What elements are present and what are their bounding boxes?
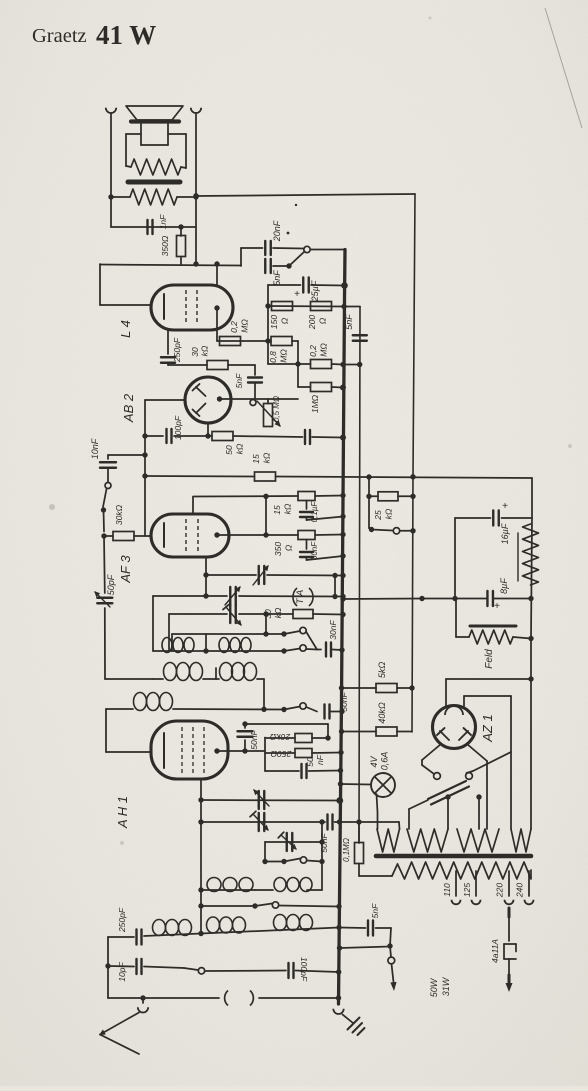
speck	[49, 17, 572, 846]
svg-text:10pF: 10pF	[117, 962, 127, 982]
node bus row906	[336, 904, 341, 909]
node	[356, 819, 361, 824]
wire v172	[171, 634, 173, 651]
wire AH1 bottom	[200, 779, 202, 934]
svg-text:5nF: 5nF	[234, 373, 244, 388]
node	[410, 494, 415, 499]
connector break	[225, 991, 254, 1006]
wire	[233, 436, 303, 437]
node bus rowB	[336, 925, 341, 930]
coil L9	[207, 917, 246, 933]
svg-text:Ω: Ω	[318, 317, 328, 324]
speaker terminal right	[191, 108, 201, 113]
svg-text:5kΩ: 5kΩ	[377, 662, 387, 679]
capacitor 1nF	[148, 214, 169, 234]
node	[261, 707, 266, 712]
svg-text:5nF: 5nF	[370, 903, 380, 918]
node bus row972	[336, 969, 341, 974]
node bus 50nFk	[338, 768, 343, 773]
node	[105, 963, 110, 968]
svg-text:250Ω: 250Ω	[270, 749, 292, 759]
svg-text:nF: nF	[315, 754, 325, 765]
ground	[343, 1015, 365, 1036]
wire	[332, 363, 344, 366]
transformer core	[376, 854, 531, 859]
wire top line	[196, 194, 415, 196]
capacitor 100pF	[167, 415, 184, 443]
svg-text:250pF: 250pF	[117, 907, 127, 933]
coil L2	[219, 638, 251, 653]
capacitor 50nF k	[265, 754, 341, 778]
coil L7	[274, 878, 312, 892]
node	[203, 634, 208, 654]
svg-text:Ω: Ω	[284, 544, 294, 551]
node bus 25uF	[341, 282, 348, 289]
bus terminal	[333, 1009, 343, 1014]
svg-text:5nF: 5nF	[344, 314, 354, 330]
svg-text:25µF: 25µF	[310, 280, 320, 302]
resistor 0,2M b	[308, 343, 332, 369]
svg-text:30: 30	[190, 347, 200, 357]
tube AH1	[151, 721, 228, 779]
svg-text:125: 125	[462, 883, 472, 897]
wire top loop	[245, 724, 331, 741]
node	[295, 361, 300, 366]
svg-text:41 W: 41 W	[96, 20, 156, 50]
output transformer secondary winding	[130, 189, 177, 205]
svg-text:4a11A: 4a11A	[490, 939, 500, 963]
svg-text:20kΩ: 20kΩ	[269, 732, 291, 742]
variable capacitor T6 trimmer	[278, 832, 296, 851]
variable capacitor T5 trimmer	[250, 811, 268, 831]
wire rowB	[144, 928, 339, 937]
wire row364	[268, 363, 311, 365]
wire row598	[422, 598, 531, 600]
transformer secondary	[392, 862, 531, 879]
wire antenna stub	[140, 995, 145, 1003]
antenna terminal	[138, 1007, 148, 1012]
node	[263, 494, 268, 499]
svg-text:kΩ: kΩ	[283, 503, 293, 514]
wire AF3 bottom	[205, 557, 207, 596]
wire row634	[172, 633, 284, 635]
svg-text:0,2: 0,2	[229, 321, 239, 333]
node	[101, 533, 106, 538]
wire to 5nF drop	[344, 306, 360, 308]
svg-text:0,6A: 0,6A	[380, 752, 390, 771]
switch S3	[284, 627, 306, 634]
capacitor 250pF ant	[108, 907, 142, 944]
svg-text:50nF: 50nF	[310, 541, 319, 560]
tap 125	[462, 871, 481, 904]
wire v265	[264, 738, 266, 772]
wire AZ1 plate left	[422, 744, 441, 760]
wire	[312, 436, 343, 439]
svg-text:15: 15	[251, 454, 261, 464]
speaker terminal left	[106, 108, 116, 113]
wire row455	[108, 454, 145, 456]
svg-text:220: 220	[495, 883, 505, 898]
svg-text:AB 2: AB 2	[121, 393, 136, 423]
node	[193, 193, 198, 198]
switch S5	[281, 703, 317, 712]
resistor 25k	[366, 474, 413, 528]
connector TA	[293, 588, 313, 606]
svg-text:16µF: 16µF	[500, 523, 510, 544]
wire row822	[201, 821, 325, 823]
wire row709	[106, 708, 284, 711]
transformer primary group4	[511, 829, 531, 852]
bus main vertical	[339, 250, 346, 1005]
node	[410, 474, 415, 479]
node	[339, 685, 415, 690]
node	[263, 611, 268, 616]
wire row496	[193, 495, 298, 498]
node	[410, 528, 415, 533]
wire row436	[145, 435, 163, 437]
svg-text:1nF: 1nF	[158, 214, 168, 229]
wire row800	[201, 799, 340, 802]
resistor 40k	[342, 702, 413, 736]
capacitor 100pF osc	[289, 957, 339, 982]
coil L1	[162, 638, 194, 653]
svg-text:kΩ: kΩ	[235, 443, 245, 454]
svg-text:Feld: Feld	[484, 649, 495, 669]
node	[265, 303, 270, 343]
wire v266b	[265, 614, 267, 634]
label AZ1	[480, 714, 495, 742]
svg-text:AF 3: AF 3	[118, 555, 133, 584]
switch S9	[369, 527, 413, 534]
tube AF3	[151, 514, 229, 557]
capacitor 5nF AB2	[234, 365, 262, 399]
svg-text:MΩ: MΩ	[240, 319, 250, 333]
svg-text:240: 240	[515, 883, 525, 898]
wire v266	[265, 496, 267, 535]
node	[178, 224, 183, 229]
svg-text:MΩ: MΩ	[319, 343, 329, 357]
resistor 30k b	[104, 504, 151, 540]
label 50W 31W	[429, 976, 451, 997]
svg-text:0,8: 0,8	[268, 351, 278, 363]
coil L10	[274, 915, 313, 931]
node bus lamp	[338, 781, 343, 786]
wire v298	[297, 341, 299, 387]
filter resistor	[518, 524, 539, 585]
svg-text:15: 15	[272, 505, 282, 515]
svg-text:Ω: Ω	[280, 317, 290, 324]
resistor 0,8M	[268, 337, 298, 363]
tube AZ1	[433, 706, 476, 749]
field coil Feld	[456, 599, 531, 669]
node	[528, 636, 533, 641]
svg-text:4V: 4V	[369, 756, 379, 768]
svg-text:50W: 50W	[429, 977, 439, 997]
resistor 15k avc	[251, 452, 276, 481]
tap 220	[495, 871, 514, 904]
wire v455	[454, 518, 456, 598]
wire	[174, 435, 212, 437]
node	[198, 797, 203, 802]
wire row614	[169, 613, 293, 615]
resistor 350Ohm b	[273, 531, 315, 557]
svg-text:30nF: 30nF	[328, 620, 338, 640]
resistor 15k screen	[272, 492, 315, 515]
capacitor 50nF ant	[319, 815, 340, 853]
svg-text:5nF: 5nF	[272, 270, 282, 286]
capacitor 20nF	[241, 220, 282, 255]
capacitor 30nF	[326, 620, 338, 657]
node bus row614	[340, 612, 345, 617]
svg-text:350: 350	[273, 542, 283, 556]
svg-text:50nF: 50nF	[339, 692, 349, 712]
node	[263, 631, 286, 636]
node bus row822	[337, 819, 342, 824]
wire v153	[152, 596, 154, 651]
label L4	[118, 320, 133, 338]
voice coil resistor	[131, 159, 181, 175]
resistor 1M	[298, 383, 343, 414]
variable capacitor T3 trimmer	[223, 604, 241, 625]
transformer primary group1	[377, 829, 400, 852]
node v145	[142, 433, 147, 478]
voltage selector	[409, 760, 482, 829]
svg-text:20nF: 20nF	[272, 220, 282, 242]
capacitor 50nF anode	[238, 721, 260, 753]
svg-text:200: 200	[307, 315, 317, 330]
wire AB2 cathode	[205, 423, 210, 439]
wire row679	[105, 678, 264, 680]
node	[203, 572, 208, 598]
electrolytic 8uF	[487, 578, 509, 612]
capacitor 250pF	[161, 330, 182, 365]
svg-text:AZ 1: AZ 1	[480, 714, 495, 742]
resistor 5k	[342, 662, 413, 693]
resistor 30k a	[168, 345, 255, 369]
wire	[306, 632, 321, 650]
wire row998	[108, 997, 339, 999]
node	[198, 887, 203, 892]
capacitor 16uF	[455, 501, 532, 544]
svg-text:30: 30	[263, 609, 273, 619]
switch S4	[281, 645, 317, 654]
wire row842	[265, 841, 322, 843]
tube AB2	[185, 377, 231, 423]
label AH1	[115, 796, 130, 829]
resistor 20k	[265, 732, 328, 743]
svg-text:Graetz: Graetz	[32, 25, 87, 47]
wire AB2 left	[145, 400, 185, 536]
variable capacitor T1	[253, 566, 268, 585]
svg-text:L 4: L 4	[118, 320, 133, 338]
wire row264	[100, 265, 241, 266]
svg-text:kΩ: kΩ	[273, 607, 283, 618]
node	[193, 261, 198, 266]
switch S6	[262, 857, 324, 864]
wire bus row599	[343, 598, 422, 601]
wire v106 low	[106, 709, 151, 752]
wire	[103, 510, 106, 532]
trimmer 50pF	[95, 574, 116, 607]
wire	[241, 340, 269, 342]
wire	[240, 248, 242, 266]
node bus 30nF	[339, 647, 344, 652]
svg-text:50nF: 50nF	[249, 730, 259, 750]
wire row890	[201, 862, 322, 891]
wire AB2 grid row	[220, 398, 299, 400]
node bus 50nFa	[340, 553, 345, 558]
node bus 40k	[339, 729, 344, 734]
svg-text:kΩ: kΩ	[384, 508, 394, 519]
capacitor 5nF drop	[344, 314, 367, 341]
wire row906	[201, 905, 255, 907]
wire row822 right	[340, 822, 400, 829]
transformer primary group2	[407, 829, 448, 852]
node bus row306	[341, 304, 346, 309]
svg-text:MΩ: MΩ	[279, 349, 289, 363]
wire	[100, 264, 151, 305]
resistor 150Ohm	[269, 302, 293, 330]
capacitor 50nF AF3	[300, 540, 343, 561]
wire	[195, 114, 197, 265]
wire row535	[217, 534, 298, 536]
node bus 250	[338, 750, 343, 755]
node bus row596	[340, 594, 345, 599]
svg-text:1MΩ: 1MΩ	[310, 394, 320, 413]
svg-text:10nF: 10nF	[90, 438, 100, 459]
wire	[315, 495, 343, 498]
node	[214, 261, 219, 266]
node bus row575	[340, 573, 345, 578]
fuse	[490, 908, 516, 992]
capacitor 50nF band	[325, 692, 350, 719]
coil L4b	[220, 663, 257, 681]
svg-text:kΩ: kΩ	[200, 345, 210, 356]
wire v268	[267, 285, 269, 364]
potentiometer 0,5M	[250, 396, 281, 427]
tube L4	[151, 285, 233, 330]
wire	[144, 967, 184, 969]
node bus row599	[340, 596, 345, 601]
wire v360	[359, 307, 360, 844]
node	[528, 676, 533, 681]
svg-text:0,2: 0,2	[308, 345, 318, 357]
wire	[110, 114, 112, 228]
wire v264	[263, 679, 265, 709]
mains switch	[337, 928, 397, 991]
wire	[343, 364, 360, 366]
wire AZ1 plate right	[467, 744, 487, 829]
capacitor 10nF	[90, 438, 116, 482]
svg-text:30kΩ: 30kΩ	[114, 504, 124, 525]
wire AVC line	[145, 476, 532, 478]
svg-text:kΩ: kΩ	[262, 452, 272, 463]
title Graetz 41 W	[32, 20, 156, 50]
label AF3	[118, 555, 133, 584]
coil L6	[207, 878, 253, 892]
node bus row496	[340, 493, 345, 498]
svg-text:0,1MΩ: 0,1MΩ	[342, 838, 351, 862]
capacitor 50nF row436	[305, 430, 310, 444]
node	[198, 819, 203, 824]
resistor 250Ohm	[265, 749, 341, 760]
output transformer frame	[126, 134, 186, 168]
loudspeaker LS	[126, 106, 183, 145]
node bus row800	[336, 797, 343, 804]
resistor 0,2M a	[220, 319, 250, 346]
wire right vertical	[412, 194, 415, 732]
wire left column	[104, 536, 105, 679]
wire v532 to filter	[531, 478, 533, 518]
resistor 0,1M mains	[342, 822, 392, 876]
svg-text:25: 25	[373, 510, 383, 521]
wire	[315, 534, 343, 537]
wire	[111, 196, 196, 198]
node	[198, 931, 203, 936]
svg-text:350Ω: 350Ω	[160, 235, 170, 256]
switch S8	[184, 968, 286, 974]
svg-text:+: +	[502, 501, 508, 512]
node bus row711	[339, 709, 344, 714]
node	[263, 532, 268, 537]
electrolytic 25uF	[268, 278, 345, 303]
svg-text:250pF: 250pF	[172, 337, 182, 363]
transformer primary group3	[457, 829, 499, 852]
wire	[333, 649, 343, 652]
capacitor 0,1uF	[300, 501, 343, 523]
node	[319, 819, 324, 824]
svg-text:+: +	[294, 289, 300, 300]
capacitor 10pF	[108, 959, 142, 982]
svg-text:110: 110	[442, 883, 452, 897]
wire row596	[153, 595, 343, 598]
wire v322	[321, 822, 323, 862]
node bus 1M	[340, 385, 346, 391]
svg-text:8µF: 8µF	[499, 578, 509, 594]
node bus row535	[340, 532, 345, 537]
resistor 350Ohm vertical	[160, 227, 186, 264]
wire v265b	[264, 842, 266, 862]
node	[319, 839, 324, 844]
capacitor 5nF mains	[340, 903, 392, 936]
switch S2	[101, 483, 111, 513]
tap 110	[442, 871, 461, 904]
coil L3	[164, 663, 217, 681]
wire v108	[107, 937, 109, 998]
wire	[216, 264, 218, 285]
node bus row998	[336, 995, 341, 1000]
node	[419, 596, 533, 601]
svg-text:50: 50	[305, 757, 315, 767]
variable capacitor T4	[254, 790, 269, 809]
stray line	[545, 8, 582, 128]
resistor 200Ohm	[307, 302, 332, 331]
coil L5	[134, 693, 173, 711]
wire row306	[268, 305, 344, 308]
tap 240	[515, 871, 534, 904]
node	[108, 194, 198, 199]
svg-text:A H 1: A H 1	[115, 796, 130, 829]
wire heater2	[464, 696, 511, 829]
wire	[273, 247, 304, 250]
svg-text:T A: T A	[295, 590, 306, 604]
node	[357, 362, 362, 367]
switch S1	[273, 246, 310, 268]
coil L8	[153, 920, 192, 936]
wire row651	[153, 650, 284, 652]
svg-text:31W: 31W	[441, 976, 451, 996]
node bus row364	[340, 362, 345, 367]
